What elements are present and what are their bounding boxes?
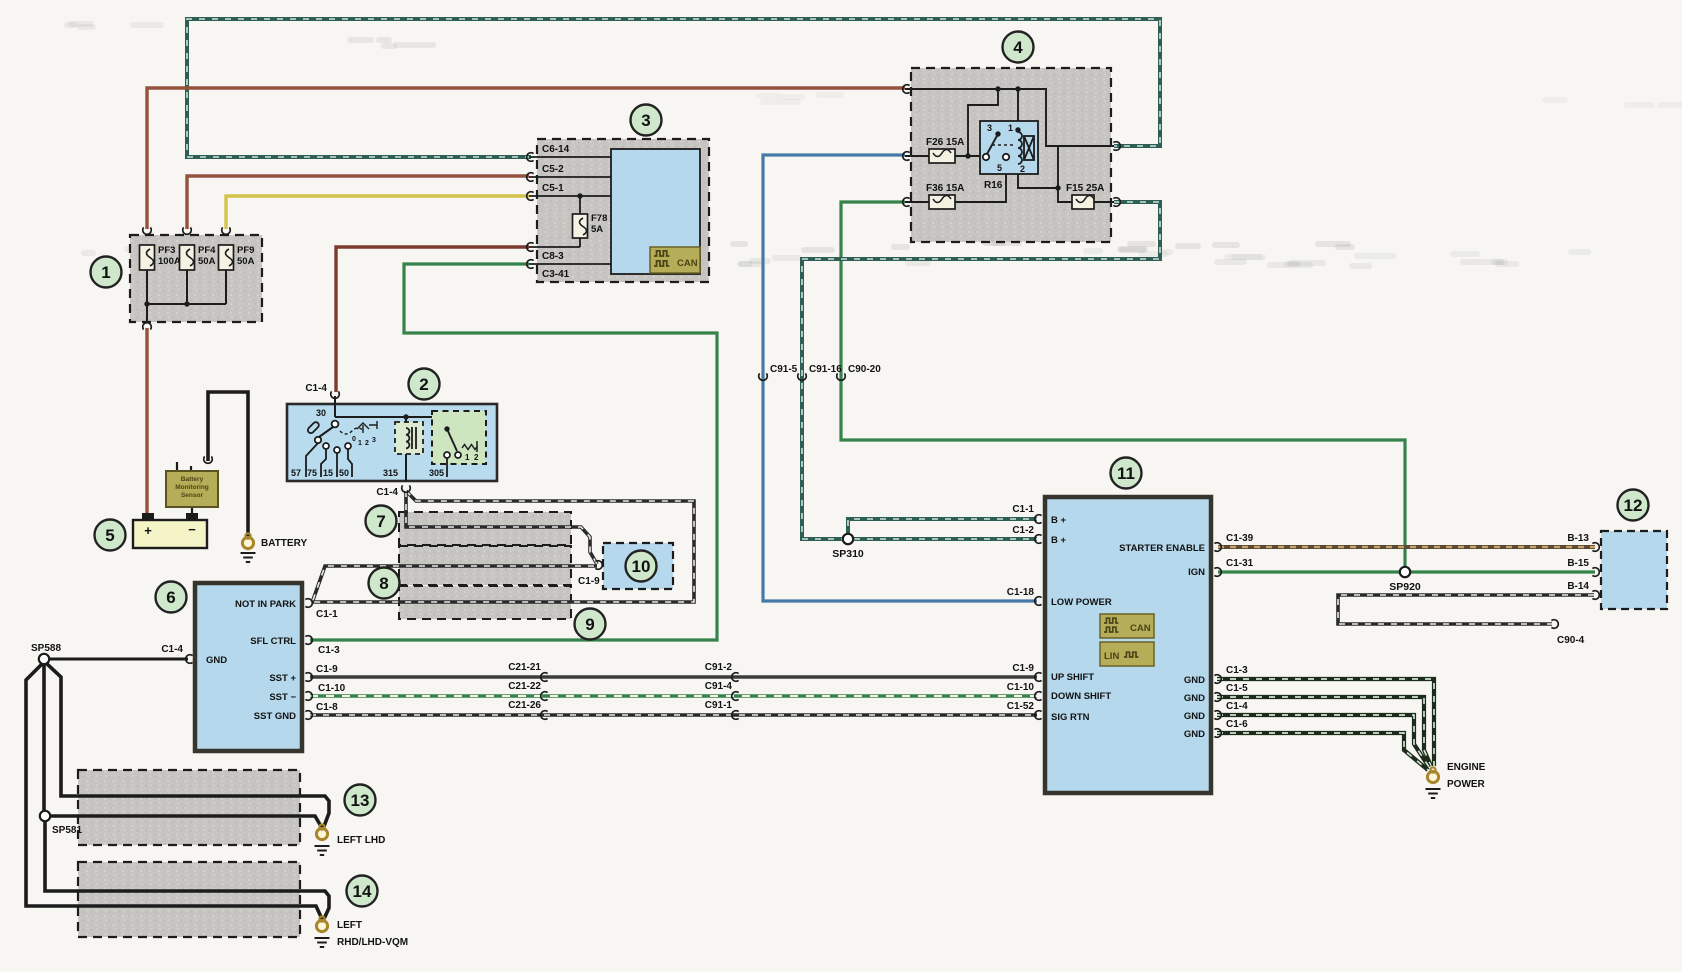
connector bubble C1-3 box6: [305, 636, 312, 645]
junction in fuse box 1: [184, 301, 189, 306]
wire battery monitoring sensor to BATTERY ground (black): [208, 392, 248, 536]
svg-text:GND: GND: [1184, 675, 1205, 686]
svg-text:5: 5: [105, 526, 114, 545]
battery 5: [133, 520, 207, 548]
svg-text:C21-22: C21-22: [508, 681, 541, 692]
fuse PF4 50A: [180, 245, 195, 270]
label circle 2: [409, 369, 440, 400]
ignition 30 terminal: [332, 421, 339, 428]
connector bubble C1-2 box11: [1035, 535, 1042, 544]
svg-text:GND: GND: [1184, 693, 1205, 704]
inline connector C21-21: [541, 673, 548, 682]
fuse PF9 50A: [219, 245, 234, 270]
relay R16 switch arm: [987, 134, 998, 154]
inline connector C91-16: [798, 373, 807, 380]
svg-text:C91-1: C91-1: [705, 700, 733, 711]
svg-text:SP310: SP310: [832, 548, 864, 560]
svg-text:SST +: SST +: [269, 673, 296, 684]
svg-text:305: 305: [429, 468, 444, 478]
wire GND C1-6 to engine power ground (black/green dashed): [1217, 733, 1428, 770]
svg-text:C21-26: C21-26: [508, 700, 541, 711]
svg-text:C1-8: C1-8: [316, 702, 338, 713]
svg-text:B-15: B-15: [1567, 558, 1589, 569]
svg-text:STARTER ENABLE: STARTER ENABLE: [1119, 543, 1205, 554]
svg-text:9: 9: [585, 615, 594, 634]
scan ghosting smudges (decorative): [64, 21, 1682, 269]
connector bubble gnd4 box11: [1214, 729, 1221, 738]
svg-text:SST −: SST −: [269, 692, 296, 703]
connector bubble sensor: [204, 456, 213, 463]
wire PF3 battery feed (brown) from fuse box 1 to box 4: [147, 88, 905, 229]
wire F36 to splice SP920 (green): [841, 202, 1405, 572]
fuse F15 25A: [1072, 195, 1094, 209]
svg-text:GND: GND: [206, 655, 227, 666]
ignition contact leads: [306, 443, 352, 477]
svg-text:C1-4: C1-4: [161, 644, 183, 655]
connector bubble C8-3: [527, 243, 534, 252]
relay R16 coil: [1018, 132, 1034, 164]
svg-text:C6-14: C6-14: [542, 144, 570, 155]
label circle 5: [95, 520, 126, 551]
wire F15 output (teal dashed) loop to SP310 and B+ C1-2 of box 11: [802, 202, 1160, 539]
box 3 module (dashed outline): [537, 139, 709, 282]
wire SP588 branch through box 14 lower run (black): [26, 664, 322, 919]
svg-text:12: 12: [1624, 496, 1643, 515]
relay R16 contact 3: [995, 131, 1000, 136]
svg-text:C1-9: C1-9: [316, 664, 338, 675]
green box resistor symbol: [462, 441, 478, 452]
svg-text:+: +: [144, 523, 152, 538]
svg-text:F36 15A: F36 15A: [926, 183, 964, 194]
svg-text:1: 1: [358, 440, 362, 447]
LEFT RHD ground symbol: [315, 938, 330, 947]
svg-text:Monitoring: Monitoring: [175, 484, 209, 491]
junction in fuse box 1: [144, 301, 149, 306]
svg-text:7: 7: [376, 512, 385, 531]
connector bubble box4 F36: [903, 198, 910, 207]
svg-text:315: 315: [383, 468, 398, 478]
svg-text:SIG RTN: SIG RTN: [1051, 712, 1090, 723]
connector bubble B-13: [1592, 543, 1599, 552]
junction 315 tap: [403, 414, 408, 419]
svg-text:SP581: SP581: [52, 825, 82, 836]
wire SP581 branch through box 13 lower run (black): [45, 816, 322, 828]
inline connector C21-22: [541, 692, 548, 701]
relay R16 contact 1: [1015, 127, 1020, 132]
wire GND C1-3 to engine power ground (black/green dashed): [1217, 679, 1434, 766]
wire SP588 branch through box 13 upper run (black): [46, 663, 329, 829]
box 11 transmission control module: [1045, 497, 1211, 793]
wire SST- C1-10 to DOWN SHIFT (green dashed): [310, 694, 1037, 698]
svg-text:C1-18: C1-18: [1007, 587, 1035, 598]
wire SST+ C1-9 to UP SHIFT (dark gray): [310, 675, 1037, 678]
svg-text:8: 8: [379, 574, 388, 593]
ENGINE POWER ground symbol: [1426, 789, 1441, 798]
svg-text:RHD/LHD-VQM: RHD/LHD-VQM: [337, 937, 408, 948]
svg-text:6: 6: [166, 588, 175, 607]
green box switch arm: [447, 429, 457, 451]
green box contacts: [444, 452, 450, 458]
LEFT RHD ground lug: [316, 916, 327, 931]
svg-text:2: 2: [365, 440, 369, 447]
svg-text:F26 15A: F26 15A: [926, 137, 964, 148]
svg-text:3: 3: [987, 123, 992, 133]
svg-text:IGN: IGN: [1188, 567, 1205, 578]
svg-text:5A: 5A: [591, 224, 603, 235]
connector bubble box4 F26: [903, 152, 910, 161]
ignition arm contact: [315, 437, 321, 443]
relay R16 pivot contact: [983, 154, 989, 160]
CAN icon in box 11: [1100, 614, 1154, 638]
connector bubble gnd3 box11: [1214, 711, 1221, 720]
svg-text:LEFT LHD: LEFT LHD: [337, 835, 385, 846]
connector bubble box4 F15 out: [1113, 198, 1120, 207]
harness box 14 (hatched): [78, 862, 300, 937]
svg-text:GND: GND: [1184, 711, 1205, 722]
svg-text:Battery: Battery: [181, 476, 204, 483]
label circle 1: [91, 257, 122, 288]
connector C90-4: [1551, 620, 1558, 629]
svg-text:LEFT: LEFT: [337, 920, 362, 931]
svg-text:1: 1: [101, 263, 110, 282]
svg-text:C3-41: C3-41: [542, 269, 570, 280]
connector bubble C6-14: [527, 153, 534, 162]
svg-text:SFL CTRL: SFL CTRL: [250, 636, 296, 647]
ignition switch arm: [319, 427, 333, 437]
svg-text:50A: 50A: [237, 256, 255, 267]
svg-text:C1-4: C1-4: [1226, 701, 1248, 712]
box 4 relay box (dashed outline): [911, 68, 1111, 242]
wire GND C1-4 to engine power ground (black/green dashed): [1217, 715, 1429, 767]
splice SP310: [843, 534, 853, 544]
label circle 6: [156, 582, 187, 613]
fuse box 1 internal bus wiring: [147, 270, 226, 323]
wire ignition C1-4 output upper run (black/white dashed): [312, 491, 694, 602]
connector bubble PF9 top: [222, 227, 231, 234]
svg-text:BATTERY: BATTERY: [261, 538, 307, 549]
svg-text:PF4: PF4: [198, 245, 216, 256]
svg-text:LOW POWER: LOW POWER: [1051, 597, 1112, 608]
ignition key symbol: [307, 421, 320, 434]
svg-text:UP SHIFT: UP SHIFT: [1051, 672, 1094, 683]
connector bubble C1-4 top of box 2: [331, 391, 340, 398]
connector bubble C1-31 box11: [1214, 568, 1221, 577]
relay R16 (blue box): [980, 121, 1038, 174]
connector bubble box4 feed: [903, 85, 910, 94]
connector bubble C1-8 box6: [305, 711, 312, 720]
wire SP588 to SP581 (black): [42, 664, 46, 811]
svg-text:F78: F78: [591, 213, 607, 224]
battery 5 terminals: [142, 513, 154, 521]
svg-text:C91-2: C91-2: [705, 662, 733, 673]
connector bubble gnd1 box11: [1214, 675, 1221, 684]
svg-text:B +: B +: [1051, 515, 1067, 526]
wire PF9 feed (yellow) to C5-1 of box 3: [226, 196, 529, 229]
svg-text:75: 75: [307, 468, 317, 478]
connector bubble box4 output: [1113, 142, 1120, 151]
svg-text:C1-6: C1-6: [1226, 719, 1248, 730]
svg-text:13: 13: [351, 791, 370, 810]
box 6 shifter module: [195, 583, 302, 751]
svg-text:POWER: POWER: [1447, 779, 1486, 790]
wire B-14 of box 12 loop to connector C90-4 (dark dashed): [1338, 595, 1594, 624]
green box contact feed: [444, 426, 449, 431]
LIN icon in box 11: [1100, 642, 1154, 666]
box 10 (dashed blue): [603, 543, 673, 589]
svg-text:ENGINE: ENGINE: [1447, 762, 1486, 773]
svg-text:C21-21: C21-21: [508, 662, 541, 673]
wire SP310 branch to B+ C1-1 of box 11 (teal dashed): [848, 519, 1037, 539]
inline connector C91-5: [759, 373, 768, 380]
svg-text:C1-1: C1-1: [316, 609, 338, 620]
svg-text:R16: R16: [984, 180, 1003, 191]
label circle 4: [1003, 32, 1034, 63]
splice SP581: [40, 811, 50, 821]
svg-text:C1-3: C1-3: [318, 645, 340, 656]
svg-text:SP588: SP588: [31, 643, 61, 654]
relay R16 actuation dashed link: [992, 144, 1014, 146]
inline connector C90-20: [837, 373, 846, 380]
svg-text:−: −: [188, 522, 196, 537]
harness box 13 (hatched): [78, 770, 300, 845]
wire PF4 feed (brown) to C5-2 of box 3: [187, 176, 529, 229]
svg-text:C90-20: C90-20: [848, 364, 881, 375]
connector bubble C5-1: [527, 192, 534, 201]
wire C8-3 of box 3 to ignition switch C1-4 (maroon): [336, 247, 529, 392]
label circle 11: [1111, 458, 1142, 489]
label circle 12: [1618, 490, 1649, 521]
svg-text:C5-1: C5-1: [542, 183, 564, 194]
svg-text:5: 5: [997, 163, 1002, 173]
junction dots box 4: [995, 86, 1000, 91]
junction C5-1 branch: [577, 193, 582, 198]
inline connector C91-2: [732, 673, 739, 682]
svg-text:3: 3: [641, 111, 650, 130]
LEFT LHD ground lug: [316, 824, 327, 839]
inline connector C21-26: [541, 711, 548, 720]
label circle 7: [366, 506, 397, 537]
svg-text:100A: 100A: [158, 256, 181, 267]
ignition rotary link dashed: [340, 428, 364, 434]
inline connector C91-1: [732, 711, 739, 720]
svg-text:PF9: PF9: [237, 245, 254, 256]
svg-text:B-14: B-14: [1567, 581, 1589, 592]
svg-text:B-13: B-13: [1567, 533, 1589, 544]
connector bubble C1-4 under box 2: [402, 485, 411, 492]
svg-text:0: 0: [352, 436, 356, 443]
svg-text:2: 2: [1020, 164, 1025, 174]
wire battery feed (teal dashed) top loop from box 4 relay output to C6-14 of box 3: [187, 19, 1160, 157]
relay R16 pin 5 contact: [1003, 154, 1009, 160]
wire IGN C1-31 of box 11 through SP920 to B-15 of box 12 (green): [1218, 570, 1595, 573]
label circle 8: [369, 568, 400, 599]
svg-text:C1-5: C1-5: [1226, 683, 1248, 694]
svg-text:Sensor: Sensor: [181, 492, 204, 499]
splice SP588: [39, 654, 49, 664]
connector bubble C5-2: [527, 173, 534, 182]
wire F26 to LOW POWER C1-18 of box 11 (blue): [763, 155, 1037, 601]
svg-text:50A: 50A: [198, 256, 216, 267]
connector bubble C1-10 box11: [1035, 692, 1042, 701]
wire battery positive feed (brown) from fuse box 1 to battery: [145, 328, 148, 514]
svg-text:SP920: SP920: [1389, 581, 1421, 593]
connector bubble C1-4 gnd box6: [186, 655, 193, 664]
connector bubble fuse box 1 bottom: [143, 323, 152, 330]
svg-text:2: 2: [474, 453, 479, 462]
svg-text:C8-3: C8-3: [542, 251, 564, 262]
svg-text:C91-4: C91-4: [705, 681, 733, 692]
wire C3-41 of box 3 to SFL CTRL C1-3 of box 6 (green): [310, 264, 717, 640]
wire SP581 branch through box 14 upper run (black): [45, 821, 329, 921]
svg-text:1: 1: [465, 453, 470, 462]
svg-text:4: 4: [1013, 38, 1023, 57]
ENGINE POWER ground lug: [1427, 767, 1438, 782]
svg-text:11: 11: [1117, 464, 1135, 483]
svg-text:C91-5: C91-5: [770, 364, 798, 375]
svg-text:C1-39: C1-39: [1226, 533, 1254, 544]
CAN icon in box 3: [650, 247, 700, 273]
svg-text:1: 1: [1008, 123, 1013, 133]
wire 305 stub: [446, 458, 448, 477]
label circle 10: [626, 551, 657, 582]
wire STARTER ENABLE C1-39 to B-13 of box 12 (tan dashed): [1218, 545, 1595, 549]
ignition contacts: [323, 443, 329, 449]
fuse box 1 (dashed outline): [130, 235, 262, 322]
connector bubble C1-9 box6: [305, 673, 312, 682]
ignition 315 transformer box: [395, 422, 423, 454]
svg-text:B +: B +: [1051, 535, 1067, 546]
box 2 ignition switch (blue): [287, 404, 497, 481]
label circle 14: [347, 876, 378, 907]
connector bubble B-15: [1592, 568, 1599, 577]
connector bubble C1-9 box11: [1035, 673, 1042, 682]
svg-text:CAN: CAN: [1130, 623, 1151, 634]
LEFT LHD ground symbol: [315, 846, 330, 855]
fuse F36 15A: [929, 195, 955, 209]
harness box 8 (hatched): [399, 546, 571, 585]
BATTERY ground lug: [242, 533, 253, 548]
connector bubble B-14: [1592, 591, 1599, 600]
svg-text:C1-9: C1-9: [1012, 663, 1034, 674]
wire SST GND C1-8 to SIG RTN (dark dashed): [310, 713, 1037, 716]
box 3 internal wires: [529, 157, 611, 264]
svg-text:C1-1: C1-1: [1012, 504, 1034, 515]
connector bubble C1-1 box6: [305, 599, 312, 608]
splice SP920: [1400, 567, 1410, 577]
label circle 3: [631, 105, 662, 136]
connector bubble PF4 top: [183, 227, 192, 234]
svg-text:PF3: PF3: [158, 245, 175, 256]
svg-text:CAN: CAN: [677, 258, 698, 269]
wire NOT IN PARK C1-1 branch to box 10 C1-9 (black/white dashed): [313, 566, 597, 600]
svg-text:C90-4: C90-4: [1557, 635, 1585, 646]
fuse F78 5A: [573, 214, 588, 238]
connector bubble PF3 top: [143, 227, 152, 234]
box 3 inner module (blue): [611, 149, 700, 274]
svg-text:C1-9: C1-9: [578, 576, 600, 587]
connector bubble C1-18 box11: [1035, 597, 1042, 606]
ignition switch bus: [335, 396, 447, 429]
box 12 (dashed blue): [1601, 531, 1667, 609]
BATTERY ground symbol: [241, 553, 256, 562]
wire GND C1-4 of box 6 to splice SP588 (black): [44, 658, 188, 661]
connector bubble C1-39 box11: [1214, 543, 1221, 552]
svg-text:15: 15: [323, 468, 333, 478]
svg-text:C1-31: C1-31: [1226, 558, 1254, 569]
connector bubble C1-52 box11: [1035, 711, 1042, 720]
svg-text:GND: GND: [1184, 729, 1205, 740]
svg-text:10: 10: [632, 557, 651, 576]
svg-text:C1-52: C1-52: [1007, 701, 1035, 712]
svg-text:C1-10: C1-10: [1007, 682, 1035, 693]
ignition accessory green box: [432, 411, 486, 464]
harness box 7 (hatched): [399, 512, 571, 545]
svg-text:C5-2: C5-2: [542, 164, 564, 175]
svg-text:50: 50: [339, 468, 349, 478]
svg-text:C1-3: C1-3: [1226, 665, 1248, 676]
connector bubble C1-9 box10: [595, 561, 602, 570]
wire 315 output: [405, 417, 407, 481]
connector bubble gnd2 box11: [1214, 693, 1221, 702]
connector bubble C1-1 box11: [1035, 515, 1042, 524]
svg-text:C1-4: C1-4: [305, 383, 327, 394]
svg-text:C1-4: C1-4: [376, 487, 398, 498]
label circle 9: [575, 609, 606, 640]
svg-text:3: 3: [372, 437, 376, 444]
ignition position pointer: [357, 421, 377, 433]
fuse F26 15A: [929, 149, 955, 163]
svg-text:LIN: LIN: [1104, 651, 1119, 662]
connector bubble C1-10 box6: [305, 692, 312, 701]
fuse PF3 100A: [140, 245, 155, 270]
battery monitoring sensor pins: [177, 462, 192, 514]
box 4 internal wiring: [905, 89, 1114, 202]
svg-text:2: 2: [419, 375, 428, 394]
svg-text:DOWN SHIFT: DOWN SHIFT: [1051, 691, 1111, 702]
svg-text:14: 14: [353, 882, 372, 901]
svg-text:C1-10: C1-10: [318, 683, 346, 694]
harness box 9 (hatched): [399, 586, 571, 619]
svg-text:F15 25A: F15 25A: [1066, 183, 1104, 194]
svg-text:C1-2: C1-2: [1012, 525, 1034, 536]
inline connector C91-4: [732, 692, 739, 701]
svg-text:NOT IN PARK: NOT IN PARK: [235, 599, 296, 610]
svg-text:57: 57: [291, 468, 301, 478]
label circle 13: [345, 785, 376, 816]
wire ignition C1-4 branch to box 10 C1-9 (black/white dashed): [406, 491, 597, 564]
battery monitoring sensor (olive box): [166, 471, 218, 507]
svg-text:SST GND: SST GND: [254, 711, 296, 722]
svg-text:30: 30: [316, 408, 326, 418]
wire GND C1-5 to engine power ground (black/green dashed): [1217, 697, 1431, 766]
connector bubble C3-41: [527, 260, 534, 269]
